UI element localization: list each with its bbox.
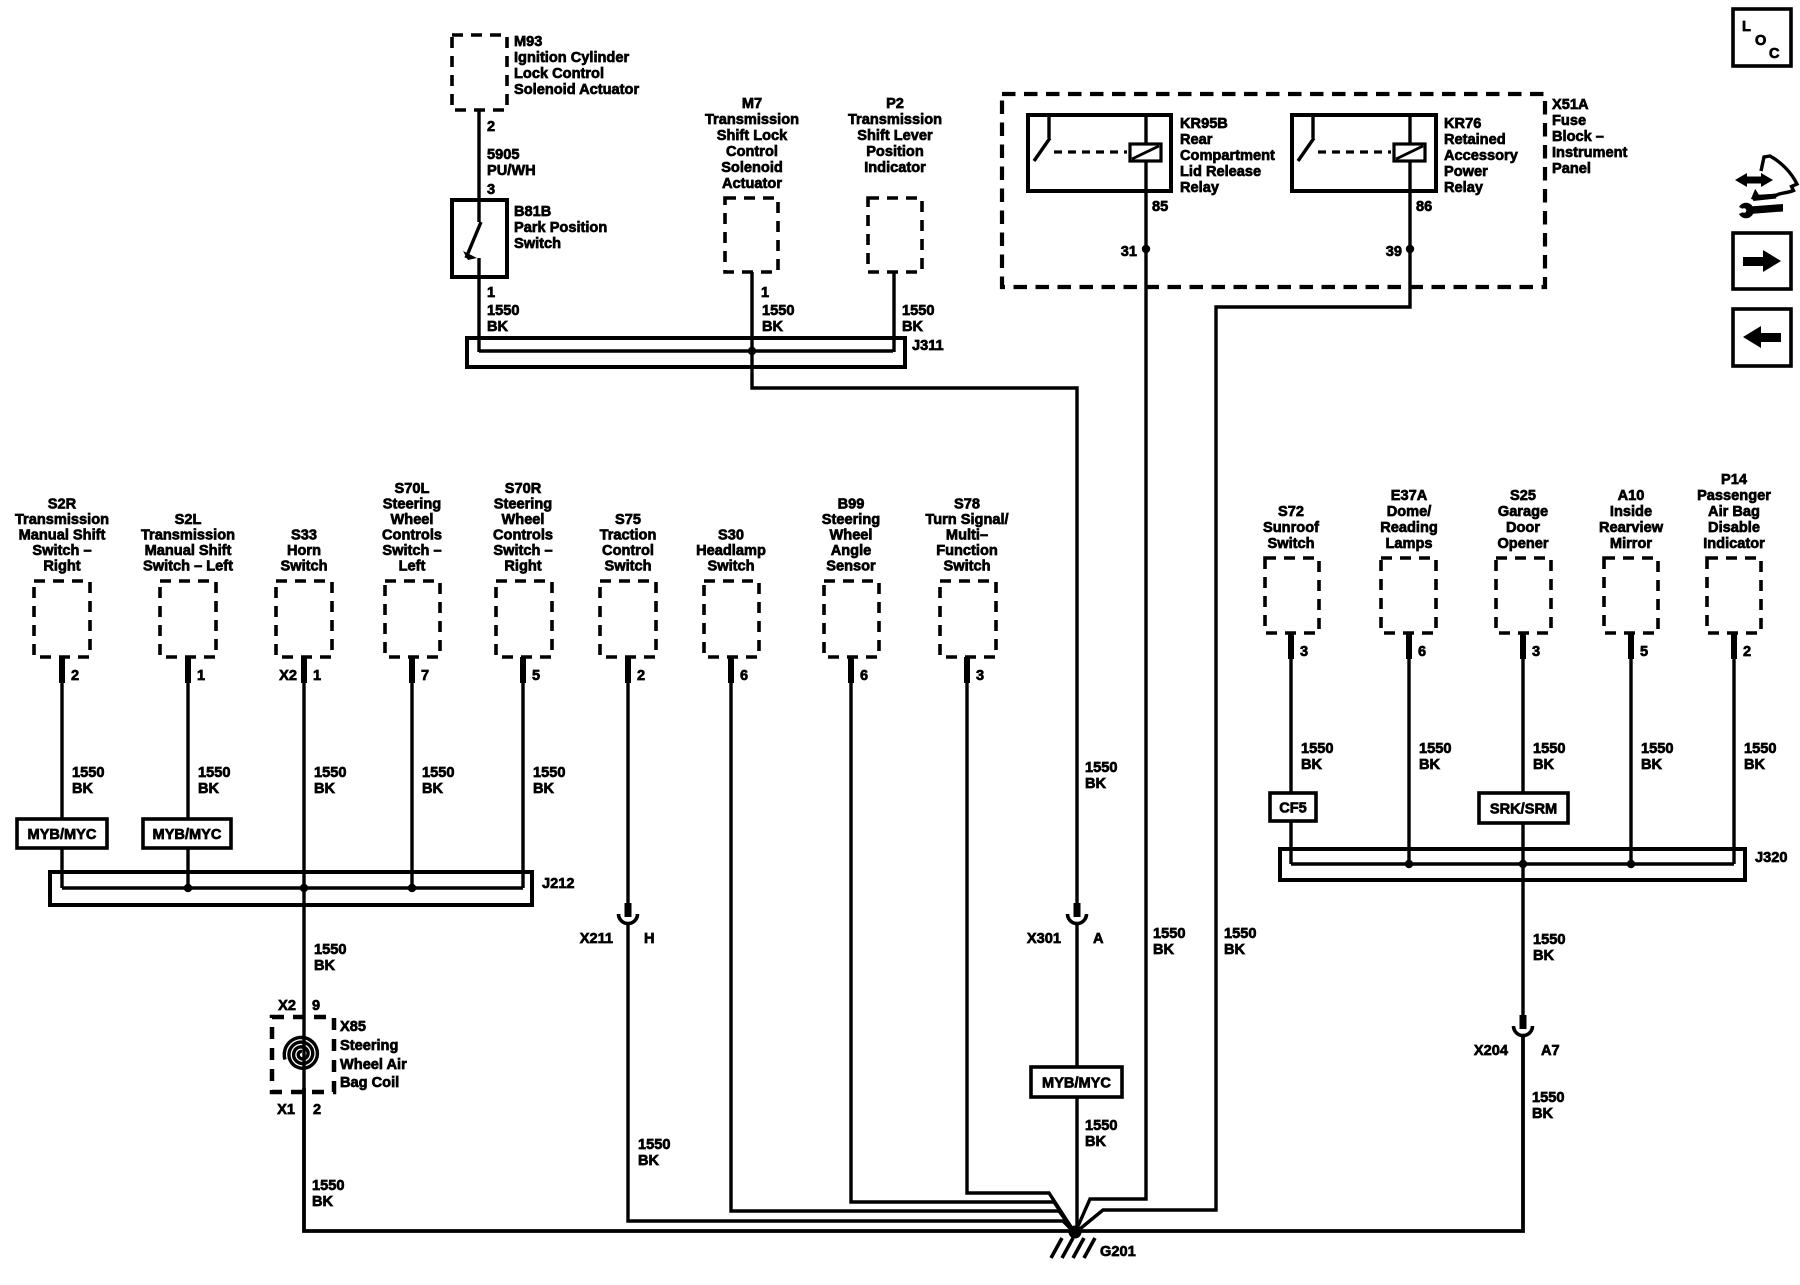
ground G201 [1051,1226,1136,1261]
junction S2L on J212 [184,884,192,892]
junction M7 wire on J311 [748,347,756,355]
pin stub of B99 [848,657,854,683]
svg-text:Switch: Switch [280,559,327,575]
svg-text:Ignition Cylinder: Ignition Cylinder [514,50,629,66]
connector label MYB/MYC (S2L wire) [143,819,231,848]
svg-text:S33: S33 [291,528,317,544]
svg-text:Controls: Controls [493,528,553,544]
wire S75 to X211 [626,657,629,903]
svg-text:Bag Coil: Bag Coil [340,1075,399,1091]
svg-text:BK: BK [198,781,220,797]
svg-text:L: L [1742,19,1751,35]
connector label MYB/MYC (X301 wire) [1031,1067,1122,1097]
svg-text:86: 86 [1416,199,1432,215]
pin stub of S30 [728,657,734,683]
svg-text:1550: 1550 [198,765,230,781]
svg-text:Angle: Angle [831,543,872,559]
svg-text:Manual Shift: Manual Shift [145,543,232,559]
svg-text:BK: BK [1085,776,1107,792]
svg-text:Rearview: Rearview [1599,520,1664,536]
svg-text:2: 2 [1743,644,1751,660]
wire S70R to J212 [521,657,524,888]
svg-text:Disable: Disable [1708,520,1760,536]
svg-text:Power: Power [1444,164,1488,180]
svg-text:BK: BK [762,319,784,335]
wire label 1550 BK (KR95B wire) [1153,926,1185,958]
junction S33 on J212 [300,884,308,892]
svg-text:Multi–: Multi– [946,528,988,544]
pin stub of S70L [409,657,415,683]
component E37A Dome/Reading Lamps [1380,488,1438,633]
svg-text:E37A: E37A [1391,488,1428,504]
svg-text:H: H [644,931,655,947]
svg-text:BK: BK [1224,942,1246,958]
svg-text:CF5: CF5 [1279,801,1307,817]
connector X85 Steering Wheel Air Bag Coil [272,1017,407,1092]
wire label 5905 PU/WH [487,147,536,179]
svg-text:Inside: Inside [1610,504,1652,520]
wire P14 to J320 [1732,633,1735,864]
pin stub of S72 [1288,633,1294,659]
svg-text:Shift Lever: Shift Lever [857,128,933,144]
svg-text:Accessory: Accessory [1444,148,1519,164]
wire B99 to G201 [851,657,1075,1233]
pin stub of S78 [964,657,970,683]
svg-text:J212: J212 [542,876,574,892]
wire label 1550 BK (S25) [1533,741,1565,773]
svg-text:BK: BK [533,781,555,797]
wire label 1550 BK (S33 below J212) [314,942,346,974]
svg-text:Panel: Panel [1552,161,1591,177]
svg-text:Controls: Controls [382,528,442,544]
svg-text:BK: BK [1641,757,1663,773]
svg-text:2: 2 [637,668,645,684]
svg-text:3: 3 [487,182,495,198]
switch S30 Headlamp Switch [696,528,766,658]
svg-text:Sunroof: Sunroof [1263,520,1319,536]
svg-text:BK: BK [1301,757,1323,773]
pin stub of S25 [1520,633,1526,659]
wire A10 to J320 [1629,633,1632,864]
svg-text:X85: X85 [340,1019,366,1035]
wire label 1550 BK (below MYB/MYC) [1085,1118,1117,1150]
svg-text:BK: BK [1532,1106,1554,1122]
svg-text:J311: J311 [912,338,944,354]
splice J311 [467,338,944,367]
junction S70L on J212 [408,884,416,892]
svg-text:1550: 1550 [1085,760,1117,776]
svg-text:S70R: S70R [505,481,542,497]
svg-text:B81B: B81B [514,204,551,220]
svg-text:2: 2 [487,119,495,135]
svg-text:Wheel: Wheel [502,512,545,528]
svg-text:5: 5 [1640,644,1648,660]
icon forward arrow box [1733,233,1791,289]
svg-text:X2: X2 [278,998,296,1014]
svg-text:KR95B: KR95B [1180,116,1228,132]
svg-text:1: 1 [313,668,321,684]
svg-text:BK: BK [1533,757,1555,773]
svg-text:1550: 1550 [1153,926,1185,942]
svg-text:Switch – Left: Switch – Left [143,559,233,575]
junction S25 on J320 [1519,860,1527,868]
switch B81B Park Position Switch [452,200,607,277]
wire S72 to J320 [1289,633,1292,864]
wire S78 to G201 [967,657,1075,1233]
svg-text:BK: BK [487,319,509,335]
svg-text:Transmission: Transmission [848,112,942,128]
svg-text:1550: 1550 [1532,1090,1564,1106]
svg-text:A7: A7 [1541,1043,1560,1059]
svg-text:1550: 1550 [312,1178,344,1194]
svg-text:6: 6 [860,668,868,684]
svg-text:Fuse: Fuse [1552,113,1586,129]
svg-text:Air Bag: Air Bag [1708,504,1760,520]
wire S70L to J212 [410,657,413,888]
actuator M7 Transmission Shift Lock Control Solenoid Actuator [705,96,799,272]
icon back arrow box [1733,309,1791,366]
svg-text:X1: X1 [277,1102,295,1118]
svg-text:P2: P2 [886,96,904,112]
switch S75 Traction Control Switch [600,512,657,657]
splice J320 [1280,849,1787,880]
wire label 1550 BK (X211 wire) [638,1137,670,1169]
svg-text:MYB/MYC: MYB/MYC [1042,1076,1111,1092]
wire E37A to J320 [1407,633,1410,864]
svg-text:MYB/MYC: MYB/MYC [153,827,222,843]
svg-text:Passenger: Passenger [1697,488,1771,504]
svg-text:Solenoid: Solenoid [721,160,783,176]
svg-text:X211: X211 [580,931,613,947]
pin stub of A10 [1628,633,1634,659]
inline connector X204 pin A7 [1474,1015,1560,1059]
svg-text:BK: BK [1744,757,1766,773]
component P14 Passenger Air Bag Disable Indicator [1697,472,1771,633]
svg-text:A: A [1093,931,1104,947]
svg-text:SRK/SRM: SRK/SRM [1490,802,1557,818]
indicator P2 Transmission Shift Lever Position Indicator [848,96,942,272]
wire X301 to MYB/MYC to G201 [1075,922,1078,1233]
svg-text:Park Position: Park Position [514,220,607,236]
wire S2R to J212 [60,657,63,888]
wire label 1550 BK (P14) [1744,741,1776,773]
wire M7 to J311 then to X301, 1550 BK [752,272,1077,903]
switch S2R Transmission Manual Shift Switch - Right [15,497,109,658]
pin stub of S2L [185,657,191,683]
svg-text:Retained: Retained [1444,132,1506,148]
wire S30 to G201 [731,657,1075,1233]
svg-text:6: 6 [1418,644,1426,660]
inline connector X211 pin H [580,903,655,947]
pin stub of S75 [625,657,631,683]
wire label 1550 BK (A10) [1641,741,1673,773]
svg-text:5905: 5905 [487,147,519,163]
svg-text:Manual Shift: Manual Shift [19,528,106,544]
svg-text:BK: BK [638,1153,660,1169]
svg-text:31: 31 [1121,244,1137,260]
svg-text:Horn: Horn [287,543,321,559]
svg-text:Sensor: Sensor [826,559,876,575]
svg-text:Traction: Traction [600,528,657,544]
svg-text:Relay: Relay [1180,180,1220,196]
svg-text:1550: 1550 [1085,1118,1117,1134]
component A10 Inside Rearview Mirror [1599,488,1664,633]
svg-text:Relay: Relay [1444,180,1484,196]
svg-text:J320: J320 [1755,850,1787,866]
svg-text:1550: 1550 [1224,926,1256,942]
svg-text:Right: Right [43,559,80,575]
svg-text:Steering: Steering [494,497,552,513]
svg-text:BK: BK [314,781,336,797]
svg-text:1550: 1550 [1419,741,1451,757]
wire KR76 pin 86 to G201 [1075,191,1410,1233]
component S25 Garage Door Opener [1496,488,1551,633]
wire P2 to J311, 1550 BK [894,272,934,352]
wire label 1550 BK (X204 wire) [1532,1090,1564,1122]
svg-text:BK: BK [312,1194,334,1210]
connector label MYB/MYC (S2R wire) [17,819,107,848]
svg-text:Lock Control: Lock Control [514,66,604,82]
svg-text:1550: 1550 [1533,741,1565,757]
svg-text:Compartment: Compartment [1180,148,1275,164]
svg-text:1550: 1550 [422,765,454,781]
svg-text:Transmission: Transmission [705,112,799,128]
svg-text:Lamps: Lamps [1385,536,1432,552]
wire label 1550 BK (S33) [314,765,346,797]
wire B81B to splice J311, 1550 BK [479,277,519,352]
junction A10 on J320 [1627,860,1635,868]
wire S2L to J212 [186,657,189,888]
wire S25 through J320 down to X204 [1521,633,1524,1015]
svg-text:A10: A10 [1618,488,1645,504]
svg-text:BK: BK [1153,942,1175,958]
junction at pin 31 [1142,245,1150,253]
svg-text:Switch –: Switch – [493,543,552,559]
svg-text:1550: 1550 [1533,932,1565,948]
svg-text:Instrument: Instrument [1552,145,1628,161]
svg-text:1550: 1550 [1744,741,1776,757]
svg-text:BK: BK [902,319,924,335]
svg-text:1: 1 [761,285,769,301]
svg-text:Reading: Reading [1380,520,1438,536]
svg-text:BK: BK [1085,1134,1107,1150]
svg-text:1550: 1550 [1301,741,1333,757]
svg-text:Dome/: Dome/ [1387,504,1432,520]
svg-text:1550: 1550 [72,765,104,781]
wire X204 to G201 [1075,1034,1523,1231]
svg-text:Function: Function [936,543,998,559]
svg-text:Mirror: Mirror [1610,536,1652,552]
svg-text:39: 39 [1386,244,1402,260]
svg-text:Block –: Block – [1552,129,1604,145]
svg-text:Opener: Opener [1497,536,1548,552]
svg-text:X301: X301 [1027,931,1061,947]
svg-text:M7: M7 [742,96,762,112]
wire KR95B pin 85 to G201 [1075,191,1146,1233]
wire label 1550 BK (X85 wire) [312,1178,344,1210]
svg-text:Lid Release: Lid Release [1180,164,1261,180]
svg-text:Switch –: Switch – [382,543,441,559]
svg-text:Transmission: Transmission [141,528,235,544]
wire label 1550 BK (S70R) [533,765,565,797]
svg-text:Transmission: Transmission [15,512,109,528]
svg-text:Solenoid Actuator: Solenoid Actuator [514,82,639,98]
splice J212 [50,872,574,905]
connector label CF5 (S72 wire) [1270,793,1316,821]
component S72 Sunroof Switch [1263,504,1319,633]
svg-text:1550: 1550 [487,303,519,319]
svg-text:MYB/MYC: MYB/MYC [28,827,97,843]
svg-text:Steering: Steering [383,497,441,513]
switch S70R Steering Wheel Controls Switch - Right [493,481,553,657]
svg-text:BK: BK [1533,948,1555,964]
svg-text:BK: BK [314,958,336,974]
svg-text:Steering: Steering [822,512,880,528]
svg-text:1: 1 [487,285,495,301]
wire label 1550 BK (X301 wire) [1085,760,1117,792]
svg-text:BK: BK [422,781,444,797]
svg-text:1550: 1550 [1641,741,1673,757]
svg-text:9: 9 [312,998,320,1014]
svg-text:S72: S72 [1278,504,1304,520]
svg-text:Turn Signal/: Turn Signal/ [925,512,1008,528]
svg-text:3: 3 [1300,644,1308,660]
svg-text:B99: B99 [838,497,865,513]
wire label 1550 BK (S72) [1301,741,1333,773]
svg-text:Indicator: Indicator [1703,536,1765,552]
svg-text:Switch: Switch [1267,536,1314,552]
svg-text:2: 2 [71,668,79,684]
svg-text:1550: 1550 [314,942,346,958]
svg-text:Switch: Switch [514,236,561,252]
svg-text:KR76: KR76 [1444,116,1481,132]
wire label 1550 BK (S25 below J320) [1533,932,1565,964]
icon LOC box [1733,9,1791,66]
svg-text:7: 7 [421,668,429,684]
svg-text:C: C [1769,46,1780,62]
svg-text:Indicator: Indicator [864,160,926,176]
junction at pin 39 [1406,245,1414,253]
svg-text:P14: P14 [1721,472,1748,488]
svg-text:6: 6 [740,668,748,684]
svg-text:Door: Door [1506,520,1540,536]
relay KR95B Rear Compartment Lid Release Relay [1028,115,1275,196]
svg-text:X204: X204 [1474,1043,1509,1059]
svg-text:O: O [1755,33,1766,49]
wire X211 to G201 [628,922,1075,1233]
svg-text:S25: S25 [1510,488,1536,504]
pin stub of S2R [59,657,65,683]
svg-text:2: 2 [313,1102,321,1118]
svg-text:Right: Right [504,559,541,575]
wire label 1550 BK (E37A) [1419,741,1451,773]
svg-text:Headlamp: Headlamp [696,543,766,559]
svg-text:BK: BK [1419,757,1441,773]
wire label 1550 BK (S2L) [198,765,230,797]
svg-text:Wheel Air: Wheel Air [340,1057,407,1073]
pin stub of P14 [1731,633,1737,659]
pin stub of S33 [301,657,307,683]
relay KR76 Retained Accessory Power Relay [1292,115,1519,196]
switch S78 Turn Signal/Multi-Function Switch [925,497,1008,658]
svg-text:Switch: Switch [943,559,990,575]
svg-text:S2R: S2R [48,497,77,513]
wire label 1550 BK (KR76 wire) [1224,926,1256,958]
pin stub of S70R [520,657,526,683]
connector label SRK/SRM (S25 wire) [1479,793,1568,823]
svg-text:BK: BK [72,781,94,797]
svg-text:Steering: Steering [340,1038,398,1054]
switch B99 Steering Wheel Angle Sensor [822,497,880,658]
svg-text:Garage: Garage [1498,504,1548,520]
svg-text:G201: G201 [1100,1244,1136,1260]
svg-text:1550: 1550 [638,1137,670,1153]
svg-text:1550: 1550 [902,303,934,319]
svg-text:Control: Control [726,144,778,160]
svg-text:S2L: S2L [175,512,202,528]
svg-text:X51A: X51A [1552,97,1589,113]
svg-text:3: 3 [1532,644,1540,660]
svg-text:M93: M93 [514,34,542,50]
wire M93 pin 2 to B81B pin 3, 5905 PU/WH [477,110,480,200]
svg-text:Switch –: Switch – [32,543,91,559]
svg-text:3: 3 [976,668,984,684]
svg-text:5: 5 [532,668,540,684]
switch S70L Steering Wheel Controls Switch - Left [382,481,442,657]
wire X85 to G201 [304,1088,1075,1231]
svg-text:Wheel: Wheel [391,512,434,528]
wire label 1550 BK (S2R) [72,765,104,797]
svg-text:Switch: Switch [604,559,651,575]
svg-text:Control: Control [602,543,654,559]
icon jump-to arrow with wrench [1735,156,1797,218]
svg-text:Position: Position [866,144,924,160]
svg-text:Rear: Rear [1180,132,1213,148]
svg-text:X2: X2 [279,668,297,684]
svg-text:Actuator: Actuator [722,176,782,192]
switch S2L Transmission Manual Shift Switch - Left [141,512,235,657]
wire S33 through J212 to X85 [302,657,305,1092]
svg-text:1: 1 [197,668,205,684]
switch S33 Horn Switch [276,528,332,658]
svg-text:S70L: S70L [395,481,430,497]
svg-text:Wheel: Wheel [830,528,873,544]
svg-text:Shift Lock: Shift Lock [717,128,788,144]
svg-text:1550: 1550 [762,303,794,319]
junction E37A on J320 [1405,860,1413,868]
fuse block X51A Fuse Block - Instrument Panel (dashed outline) [1002,94,1628,287]
svg-text:Switch: Switch [707,559,754,575]
svg-text:PU/WH: PU/WH [487,163,536,179]
svg-text:85: 85 [1152,199,1168,215]
svg-text:S75: S75 [615,512,641,528]
pin stub of E37A [1406,633,1412,659]
wire label 1550 BK (S70L) [422,765,454,797]
actuator M93 Ignition Cylinder Lock Control Solenoid Actuator [452,34,639,110]
svg-text:1550: 1550 [314,765,346,781]
svg-text:Left: Left [399,559,426,575]
svg-text:S78: S78 [954,497,980,513]
svg-text:1550: 1550 [533,765,565,781]
svg-text:S30: S30 [718,528,744,544]
inline connector X301 pin A [1027,903,1104,947]
